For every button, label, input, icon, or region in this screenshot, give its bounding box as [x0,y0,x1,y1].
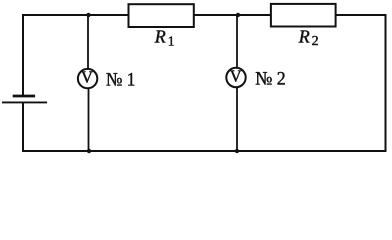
svg-text:№ 1: № 1 [106,70,135,91]
svg-text:R: R [154,27,166,47]
svg-text:1: 1 [168,34,175,49]
svg-text:V: V [230,67,242,86]
svg-text:2: 2 [312,34,319,49]
svg-text:R: R [298,27,310,47]
svg-text:№ 2: № 2 [255,69,286,90]
svg-text:V: V [81,68,93,87]
